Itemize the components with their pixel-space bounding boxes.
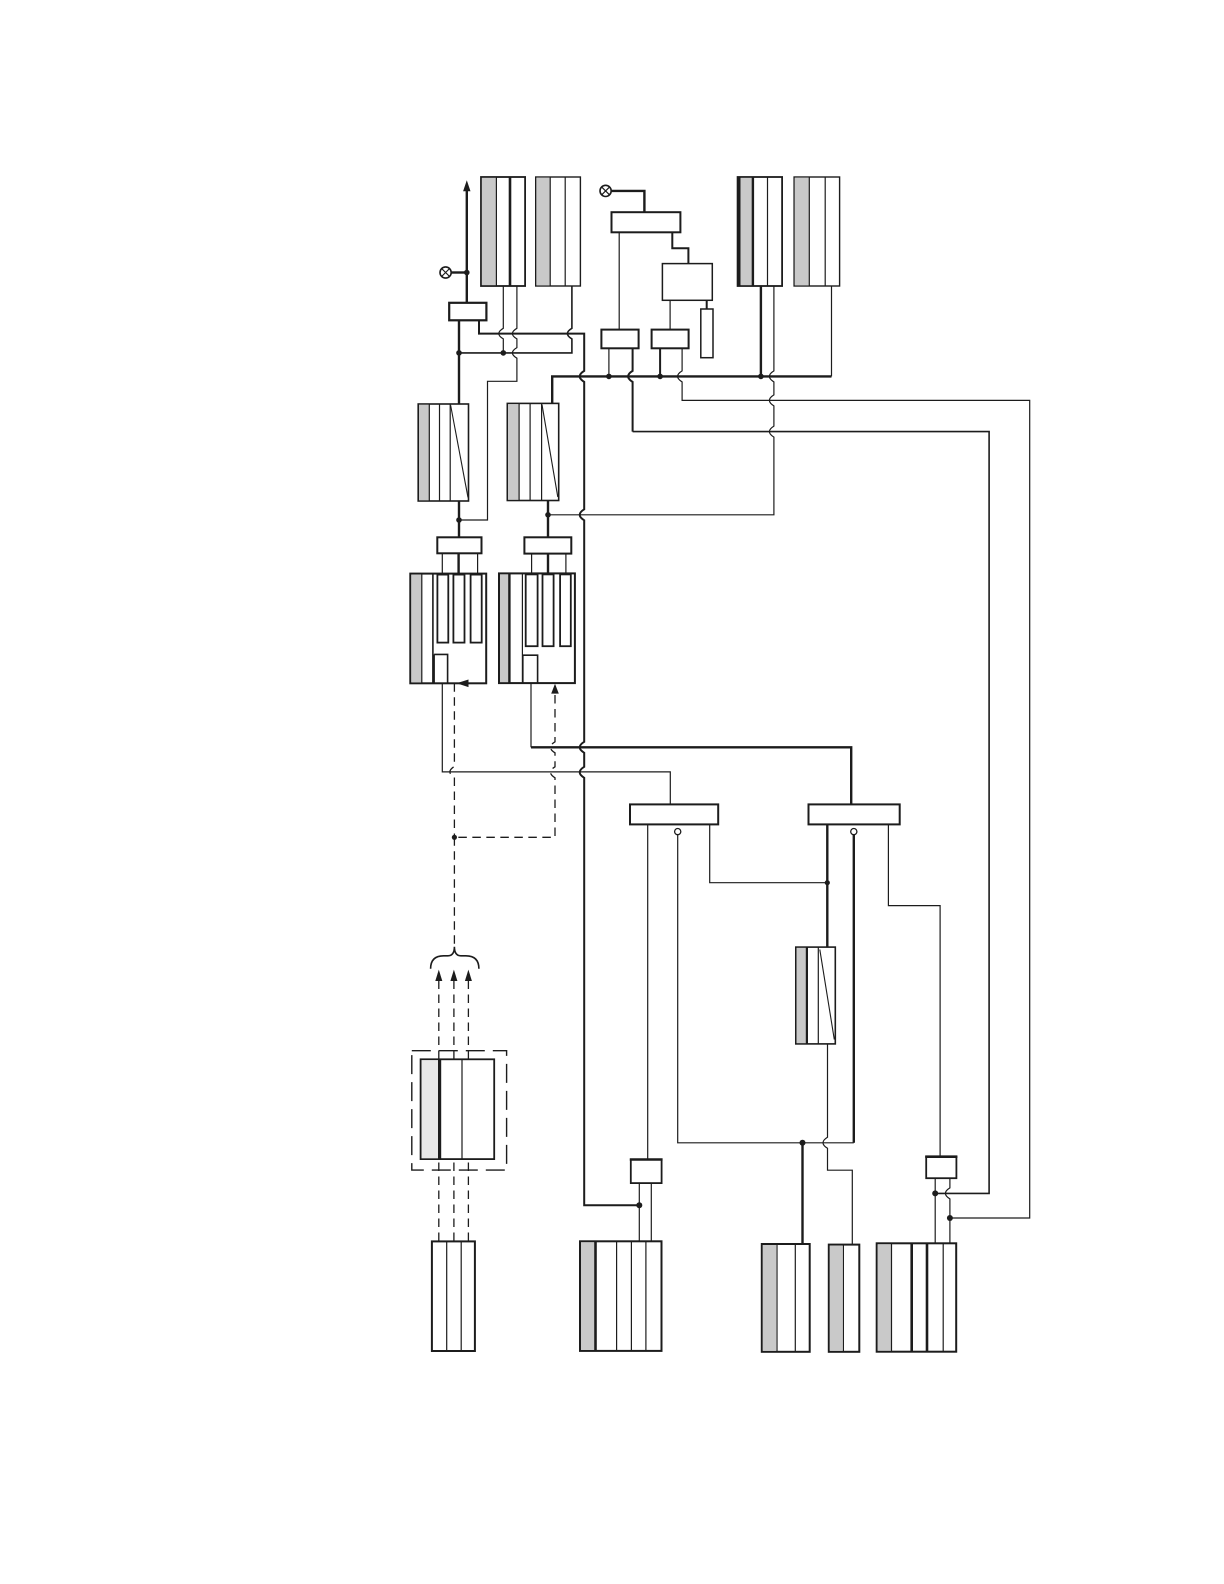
arrow into D2 (up) [551,684,559,694]
fuse block B [507,403,558,500]
wire block1 pin1 [499,286,504,353]
wire feed arrow up [463,180,470,303]
wire B1 pin1 to fuse A [458,320,460,404]
connector KB (bottom far left) [432,1241,475,1351]
wire S1 pin1 to relay I2 [647,824,649,1159]
lamp L1 [600,185,611,196]
wire fuse B to plug E2 [547,501,549,538]
wire C4 pin1 to bus [659,348,661,376]
junction dot node line left [456,350,462,356]
wire S1 pin3 [710,824,828,882]
wire lamp L1 to relay F1 [611,191,644,212]
wire block2 pin / node line [459,286,572,353]
junction dot I1 pin2 [947,1215,953,1221]
connector K0 [421,1059,495,1159]
plug E2 [524,537,571,573]
wire S1 pin2 ground line [678,835,854,1143]
dashed wire from D1 [450,683,455,837]
fuse H1 [796,947,836,1044]
wire W1 to right riser [633,432,990,1194]
switch S1 pin2 circle [675,829,681,835]
lamp L2 [440,267,451,278]
wire S2 pin1 to fuse H1 [826,824,828,947]
wire D2 to switch S2 (W6) [530,683,532,747]
junction dot feed/lamp [464,270,470,276]
junction dot S1pin3/S2pin1 [825,880,830,885]
brace [431,947,479,969]
dashed riser to brace [453,837,455,944]
dashed wire from D2 [454,695,555,837]
connector C3 [601,330,638,349]
relay B1 [449,303,486,321]
connector K2 [580,1241,662,1351]
arrow into D1 (left) [457,680,469,688]
wire F1 to C3 [618,232,620,329]
relay F1 [612,212,681,232]
connector block 4 [794,177,840,286]
junction dot ground/K3 [800,1140,806,1146]
junction dot I2 pin1 [636,1202,642,1208]
switch S1 [630,804,718,824]
junction dot dashed [452,835,457,840]
wire F2 to C4 [669,300,671,329]
switch S2 [809,804,900,824]
junction dot below fuse B [545,512,551,518]
junction dot I1 pin1 [932,1190,938,1196]
wire block1 pin2 [462,286,517,520]
connector block 2 [536,177,581,286]
connector K4 [829,1245,860,1352]
wire block4 pin to bus end [831,286,833,376]
wire I1 pin1 to K5 [934,1178,936,1243]
wire S2 pin2 down [853,835,855,1143]
wire I1 pin2 to K5 [945,1178,950,1243]
dashed harness wire 1 [435,970,442,1242]
wire to K3 [801,1143,803,1244]
bus wire [552,376,831,403]
junction dot bus 2 [657,374,663,380]
junction dot node line mid [501,350,507,356]
junction dot bus 1 [606,374,612,380]
wire fuse A to plug E1 [458,501,460,537]
wire C3 pin2 leg [628,348,633,431]
wire block3 pin2 (W3) [548,286,774,515]
wire S2 pin3 to relay I1 [888,824,940,1156]
junction dot below fuse A [456,517,462,523]
harness dashed outline box [412,1051,507,1170]
relay I1 [925,1157,957,1179]
wire F2 to resistor G1 [706,300,708,309]
switch S2 pin2 circle [851,829,857,835]
resistor G1 [701,309,713,358]
wire D1 to switch S1 (W5) [442,683,670,804]
junction dot bus 3 [758,374,764,380]
wire B1 pin2 riser (long vertical) [479,320,639,1205]
wire block3 pin1 to bus [760,286,762,376]
relay F2 [662,264,712,301]
connector block 1 [481,177,525,286]
connector D1 [410,574,486,684]
wire I2 pin2 to K2 [650,1183,652,1241]
wire H1 to K4 [823,1044,852,1245]
connector block 3 [738,177,783,286]
wire C3 pin1 to bus [608,348,610,376]
wire I2 pin1 to K2 [638,1183,640,1241]
dashed harness wire 3 [465,970,472,1242]
fuse block A [418,404,468,501]
connector K5 [877,1243,957,1351]
connector K3 [762,1244,810,1352]
wire C4 pin2 leg / W2 to right riser [678,348,1030,1218]
dashed harness wire 2 [450,970,457,1242]
connector C4 [652,330,689,349]
relay I2 [630,1160,663,1184]
wire lamp L2 to feed [451,271,467,273]
connector D2 [499,573,575,683]
plug E1 [437,537,481,573]
wire F1 to F2 [672,232,688,263]
